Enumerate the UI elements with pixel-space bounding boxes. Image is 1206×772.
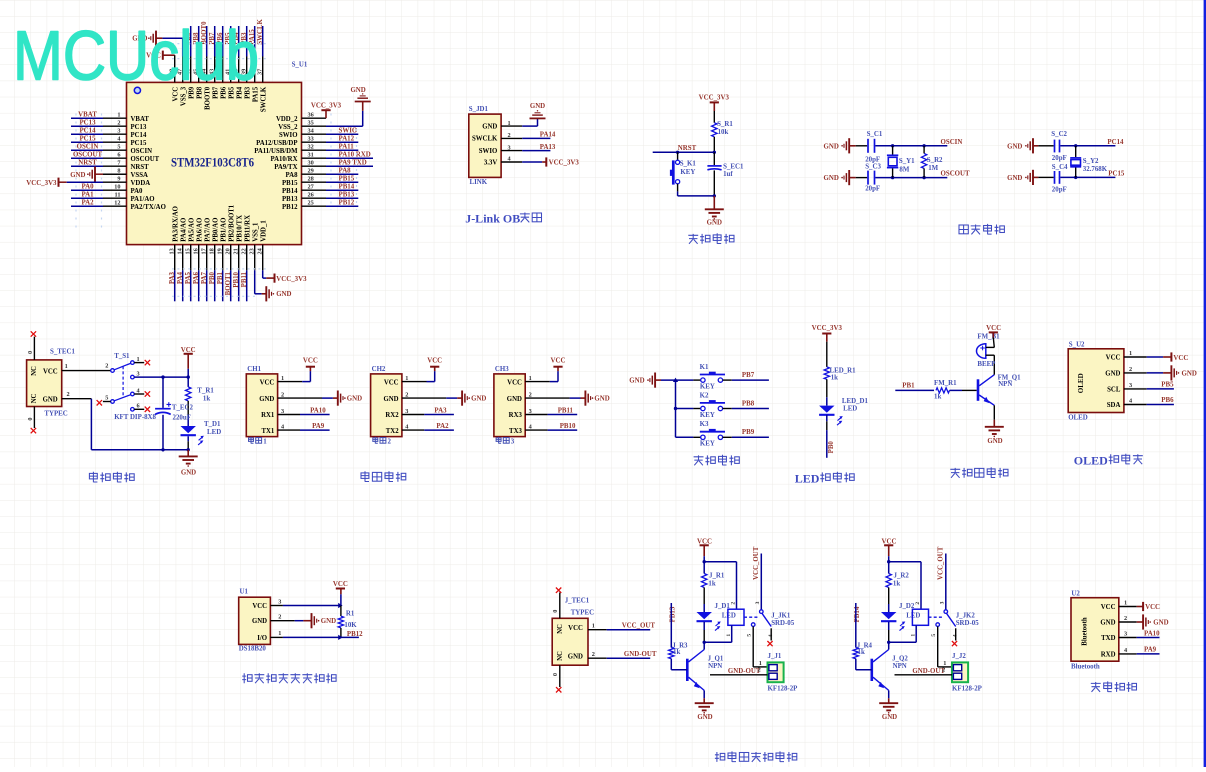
svg-text:NRST: NRST <box>78 160 97 167</box>
wire MCU right pin 26 <box>302 197 327 199</box>
wire MCU top pin 41 <box>230 57 232 83</box>
svg-text:PB10: PB10 <box>560 423 576 430</box>
wire net PB13 <box>326 197 358 199</box>
svg-text:OSCOUT: OSCOUT <box>73 152 103 159</box>
svg-text:VDD_2: VDD_2 <box>276 116 298 123</box>
svg-text:K2: K2 <box>700 392 709 399</box>
svg-text:S_JD1: S_JD1 <box>469 106 489 113</box>
wire snap marks left <box>75 114 77 233</box>
svg-text:MCUclub: MCUclub <box>13 17 259 95</box>
svg-text:1k: 1k <box>673 649 680 656</box>
wire net PA3 <box>174 270 176 301</box>
wire net OSCIN <box>71 149 103 151</box>
svg-text:3: 3 <box>405 408 408 415</box>
resistor S_R1 10k <box>712 123 717 137</box>
svg-text:GND: GND <box>987 438 1002 445</box>
wire emitter to gnd <box>888 690 890 698</box>
svg-text:KEY: KEY <box>700 412 715 419</box>
resistor J_R4 1k <box>853 648 858 659</box>
svg-text:J_J1: J_J1 <box>768 653 782 660</box>
wire CH2 pin3 net PA3 <box>402 414 424 416</box>
svg-text:VCC: VCC <box>333 581 348 588</box>
wire net PB3 <box>246 26 248 57</box>
svg-text:PB13: PB13 <box>282 196 298 203</box>
svg-text:BEEP: BEEP <box>977 361 996 368</box>
LED T_D1 <box>181 426 196 433</box>
svg-text:2: 2 <box>508 132 511 139</box>
svg-text:20pF: 20pF <box>865 156 880 163</box>
power VCC CH2 <box>430 366 439 368</box>
capacitor S_C2 20pF <box>1055 140 1060 153</box>
svg-text:0: 0 <box>27 351 34 354</box>
svg-text:KEY: KEY <box>700 383 715 390</box>
svg-text:T_S1: T_S1 <box>114 353 130 360</box>
wire net PA13 <box>522 150 550 152</box>
svg-text:6: 6 <box>137 403 140 410</box>
svg-text:PC14: PC14 <box>79 128 96 135</box>
junction coil bottom <box>703 641 706 644</box>
ground at MCU pin23 VSS_1 <box>254 270 256 294</box>
svg-text:VCC: VCC <box>551 357 566 364</box>
svg-text:PB7: PB7 <box>742 372 755 379</box>
svg-text:PB13: PB13 <box>339 191 355 198</box>
svg-text:19: 19 <box>217 248 224 254</box>
svg-text:NPN: NPN <box>998 381 1012 388</box>
svg-text:VCC_3V3: VCC_3V3 <box>812 325 843 332</box>
svg-text:22: 22 <box>241 248 248 254</box>
transistor J_Q1 NPN <box>687 650 704 691</box>
svg-text:17: 17 <box>201 248 208 254</box>
wire net PB0 <box>214 270 216 301</box>
wire net PA4 <box>182 270 184 301</box>
svg-text:PB10: PB10 <box>233 271 240 287</box>
wire EC1 top <box>713 152 715 165</box>
svg-text:J_J2: J_J2 <box>952 653 966 660</box>
junction gnd rail <box>713 194 716 197</box>
wire MCU left pin 7 <box>103 165 127 167</box>
svg-text:Bluetooth: Bluetooth <box>1082 617 1089 646</box>
svg-text:1: 1 <box>726 634 732 637</box>
wire T_S1 pin6 stub <box>134 408 144 410</box>
svg-text:GND: GND <box>1153 620 1168 627</box>
svg-text:PB15: PB15 <box>339 175 355 182</box>
resistor S_R2 1M <box>921 146 926 178</box>
connector CH2 serial <box>371 374 402 437</box>
wire MCU left pin 8 <box>103 173 127 175</box>
svg-text:1k: 1k <box>203 396 210 403</box>
svg-text:16: 16 <box>193 248 200 254</box>
wire net PB15 <box>326 181 358 183</box>
svg-text:2: 2 <box>1124 615 1127 622</box>
svg-text:2: 2 <box>592 651 595 658</box>
svg-text:28: 28 <box>308 176 314 183</box>
wire MCU left pin 3 <box>103 133 127 135</box>
wire J_TEC1 pin2 GND-OUT <box>588 657 607 659</box>
svg-text:PA3: PA3 <box>169 271 176 284</box>
svg-text:2: 2 <box>117 120 120 127</box>
wire CH3 pin3 net PB11 <box>525 414 547 416</box>
wire CH3 pin1 VCC <box>525 381 550 383</box>
svg-text:PA6/AO: PA6/AO <box>196 218 203 242</box>
wire MCU bottom pin 16 <box>198 245 200 271</box>
wire MCU right pin 32 <box>302 149 327 151</box>
ground at S_C1 <box>848 138 850 153</box>
wire net BOOT0 <box>206 26 208 57</box>
power VCC OLED pin1 <box>1124 356 1147 358</box>
wire T_S1 pin5 stub <box>103 401 111 403</box>
wire MCU right pin 31 <box>302 157 327 159</box>
svg-text:PB12: PB12 <box>347 631 363 638</box>
wire net PC13 <box>71 125 103 127</box>
svg-text:KF128-2P: KF128-2P <box>768 685 799 692</box>
svg-text:13: 13 <box>169 248 176 254</box>
svg-text:CH2: CH2 <box>372 366 386 373</box>
junction Y1 top <box>891 144 894 147</box>
svg-text:PA8: PA8 <box>339 167 352 174</box>
wire relay pin4 stub <box>955 628 957 640</box>
svg-text:J_Q1: J_Q1 <box>708 656 724 663</box>
svg-text:PB14: PB14 <box>339 183 355 190</box>
svg-text:OLED: OLED <box>1068 414 1088 421</box>
wire net NRST <box>71 165 103 167</box>
svg-text:PC14: PC14 <box>1107 139 1124 146</box>
connector J_J1 KF128-2P <box>768 662 784 682</box>
wire CH2 pin4 net PA2 <box>402 429 424 431</box>
wire S_TEC1 top pin 0 <box>33 337 35 360</box>
svg-text:TX2: TX2 <box>386 428 399 435</box>
wire MCU bottom pin 13 <box>174 245 176 271</box>
svg-text:11: 11 <box>115 192 121 199</box>
svg-text:0: 0 <box>552 610 559 613</box>
wire collector <box>888 642 890 649</box>
svg-text:PA12: PA12 <box>339 135 355 142</box>
svg-text:PA2/TX/AO: PA2/TX/AO <box>131 204 166 211</box>
LED J_D1 <box>697 612 712 619</box>
wire snap marks right <box>330 114 332 211</box>
svg-text:GND: GND <box>882 714 897 721</box>
wire LED_R1 to LED_D1 <box>826 379 828 397</box>
sheet border right <box>1204 0 1206 767</box>
svg-text:FM_B1: FM_B1 <box>977 333 1000 340</box>
connector S_TEC1 TYPEC <box>27 360 62 407</box>
capacitor S_C4 20pF <box>1055 171 1060 184</box>
svg-text:PB10/TX: PB10/TX <box>236 215 243 242</box>
svg-text:OSCOUT: OSCOUT <box>941 171 971 178</box>
svg-text:3.3V: 3.3V <box>484 159 497 166</box>
svg-text:10K: 10K <box>344 622 357 629</box>
wire net OSCOUT <box>71 157 103 159</box>
ground ds18b20 <box>311 613 313 628</box>
svg-text:25: 25 <box>308 200 314 207</box>
relay coil J_JK1 SRD-05 <box>704 609 744 642</box>
svg-text:1k: 1k <box>893 581 900 588</box>
svg-text:VCC_3V3: VCC_3V3 <box>311 103 342 110</box>
svg-text:VBAT: VBAT <box>78 112 97 119</box>
wire MCU top pin 47 <box>182 57 184 83</box>
junction R2 top <box>922 144 925 147</box>
wire net PA0 <box>71 189 103 191</box>
svg-text:S_U2: S_U2 <box>1069 341 1085 348</box>
svg-text:J_R1: J_R1 <box>709 573 725 580</box>
svg-text:5: 5 <box>747 634 753 637</box>
svg-text:PB0: PB0 <box>828 441 835 454</box>
svg-text:0: 0 <box>552 673 559 676</box>
svg-text:VCC_OUT: VCC_OUT <box>937 546 944 580</box>
wire MCU right pin 27 <box>302 189 327 191</box>
wire S_C2 to PC14 <box>1060 145 1115 147</box>
ground key circuit <box>654 373 656 388</box>
svg-text:3: 3 <box>508 144 511 151</box>
svg-text:32: 32 <box>308 144 314 151</box>
svg-text:PA6: PA6 <box>193 271 200 284</box>
resistor FM_R1 1k <box>936 388 950 393</box>
wire net PA1 <box>71 197 103 199</box>
wire MCU bottom pin 24 <box>262 245 264 271</box>
wire net VBAT <box>71 117 103 119</box>
svg-text:SWIO: SWIO <box>479 148 498 155</box>
svg-text:OSCIN: OSCIN <box>77 144 99 151</box>
svg-text:NPN: NPN <box>893 663 907 670</box>
wire net PB14 <box>326 189 358 191</box>
wire U1 pin3 to VCC <box>270 605 283 607</box>
svg-text:PA2: PA2 <box>81 200 94 207</box>
svg-text:3: 3 <box>278 598 281 605</box>
wire MCU right pin 29 <box>302 173 327 175</box>
svg-text:CH1: CH1 <box>247 366 261 373</box>
wire net PB11 <box>246 270 248 301</box>
svg-text:RX1: RX1 <box>261 412 275 419</box>
wire CH2 pin2 GND <box>402 397 446 399</box>
svg-text:PA10: PA10 <box>1144 631 1160 638</box>
wire CH1 pin1 VCC <box>278 381 303 383</box>
title relay control circuit <box>715 752 719 762</box>
capacitor S_EC1 1uf <box>707 166 721 170</box>
connector J_J2 KF128-2P <box>952 662 968 682</box>
svg-text:1: 1 <box>910 634 916 637</box>
junction bottom cap <box>161 448 164 451</box>
svg-text:PA4: PA4 <box>177 271 184 284</box>
wire U1 pin1 net PB12 <box>270 636 283 638</box>
wire MCU bottom pin 20 <box>230 245 232 271</box>
svg-text:GND: GND <box>43 397 58 404</box>
svg-text:LED: LED <box>906 613 920 620</box>
power VCC bluetooth pin1 <box>1119 606 1137 608</box>
svg-text:1: 1 <box>65 363 68 370</box>
svg-text:RXD: RXD <box>1101 652 1116 659</box>
svg-text:2: 2 <box>105 363 108 370</box>
svg-text:PA1: PA1 <box>81 192 94 199</box>
svg-text:KEY: KEY <box>680 169 695 176</box>
connector U1 DS18B20 <box>239 597 271 644</box>
svg-text:1: 1 <box>281 375 284 382</box>
relay switch J_JK2 <box>929 610 956 627</box>
svg-text:VCC: VCC <box>568 625 583 632</box>
wire NRST <box>653 151 715 153</box>
svg-text:PC13: PC13 <box>79 120 96 127</box>
svg-text:5: 5 <box>931 634 937 637</box>
svg-text:1k: 1k <box>708 581 715 588</box>
wire FM_R1 to base <box>950 389 963 391</box>
wire T_S1 pin3 to VCC node <box>134 376 188 378</box>
svg-text:26: 26 <box>308 192 314 199</box>
svg-text:PA5: PA5 <box>185 271 192 284</box>
connector U2 Bluetooth <box>1071 598 1119 662</box>
svg-text:9: 9 <box>117 176 120 183</box>
title crystal circuit <box>959 225 968 234</box>
wire MCU left pin 9 <box>103 181 127 183</box>
wire S_TEC1 pin1 to T_S1 <box>62 370 111 372</box>
svg-text:CH3: CH3 <box>495 366 509 373</box>
svg-text:U1: U1 <box>240 589 249 596</box>
svg-text:27: 27 <box>308 184 314 191</box>
wire CH3 pin2 GND <box>525 397 569 399</box>
svg-text:21: 21 <box>233 248 240 254</box>
junction R1 top arrow <box>338 603 342 608</box>
svg-text:DS18B20: DS18B20 <box>239 646 267 653</box>
svg-text:GND: GND <box>471 396 486 403</box>
svg-text:BOOT1: BOOT1 <box>225 271 232 295</box>
svg-text:PB5: PB5 <box>1161 382 1174 389</box>
wire MCU left pin 2 <box>103 125 127 127</box>
svg-text:LED: LED <box>795 471 820 485</box>
svg-text:K1: K1 <box>700 364 709 371</box>
wire MCU bottom pin 21 <box>238 245 240 271</box>
svg-text:GND: GND <box>507 396 522 403</box>
svg-text:PA0: PA0 <box>131 188 144 195</box>
wire gnd bottom rail <box>91 449 188 451</box>
svg-text:2: 2 <box>278 614 281 621</box>
svg-text:NC: NC <box>557 624 564 634</box>
wire T_S1 pin4 stub <box>134 393 144 395</box>
svg-text:PA12/USB/DP: PA12/USB/DP <box>256 140 297 147</box>
wire CH2 pin1 VCC <box>402 381 427 383</box>
svg-text:GND: GND <box>530 103 545 110</box>
wire emitter to ground <box>993 405 995 420</box>
svg-text:GND: GND <box>321 618 336 625</box>
svg-text:PA13: PA13 <box>540 144 556 151</box>
svg-text:3: 3 <box>1124 631 1127 638</box>
svg-text:VCC_3V3: VCC_3V3 <box>26 180 57 187</box>
svg-text:T_D1: T_D1 <box>204 421 221 428</box>
svg-text:OSCIN: OSCIN <box>941 139 963 146</box>
wire to LED_R1 <box>826 342 828 367</box>
wire bus to K2 <box>676 408 694 410</box>
relay switch J_JK1 <box>744 610 771 627</box>
wire MCU top pin 38 <box>254 57 256 83</box>
svg-text:PB1: PB1 <box>217 271 224 284</box>
wire K3 to net PB9 <box>723 436 732 438</box>
svg-text:S_R1: S_R1 <box>717 121 733 128</box>
ground at MCU pin8 VSSA <box>95 173 103 175</box>
svg-text:220uF: 220uF <box>173 415 191 422</box>
svg-text:2: 2 <box>1129 366 1132 373</box>
junction key bus mid <box>674 407 677 410</box>
wire VCC_OUT down <box>945 554 947 610</box>
wire net PB10 <box>238 270 240 301</box>
wire S_TEC1 pin2 GND out <box>62 398 92 400</box>
switch S_K1 KEY <box>670 160 680 184</box>
svg-text:PB14: PB14 <box>854 606 861 622</box>
svg-text:VCC: VCC <box>986 325 1001 332</box>
svg-text:PB8: PB8 <box>742 400 755 407</box>
svg-text:S_R2: S_R2 <box>927 157 943 164</box>
svg-text:TYPEC: TYPEC <box>44 410 67 417</box>
svg-text:0: 0 <box>27 418 34 421</box>
svg-text:30: 30 <box>308 160 314 167</box>
svg-text:GND-OUT: GND-OUT <box>912 668 945 675</box>
svg-text:31: 31 <box>308 152 314 159</box>
svg-text:NC: NC <box>557 651 564 661</box>
wire net PA5 <box>190 270 192 301</box>
svg-text:J_R2: J_R2 <box>894 573 910 580</box>
svg-text:VCC: VCC <box>260 379 275 386</box>
wire MCU top pin 46 <box>190 57 192 83</box>
junction VCC node <box>187 375 190 378</box>
svg-text:T_EC2: T_EC2 <box>172 405 194 412</box>
svg-text:PB11: PB11 <box>558 408 574 415</box>
svg-text:PA3/RX/AO: PA3/RX/AO <box>172 206 179 242</box>
svg-text:PB14: PB14 <box>282 188 298 195</box>
svg-text:1k: 1k <box>934 394 941 401</box>
svg-text:PB0/AO: PB0/AO <box>212 218 219 242</box>
svg-text:NC: NC <box>31 393 38 403</box>
wire MCU top pin 45 <box>198 57 200 83</box>
svg-text:PA7: PA7 <box>201 271 208 284</box>
wire T_D1 to gnd <box>187 436 189 441</box>
svg-text:PC15: PC15 <box>131 140 147 147</box>
svg-text:I/O: I/O <box>257 635 267 642</box>
svg-text:VSS_2: VSS_2 <box>278 124 298 131</box>
wire MCU left pin 12 <box>103 205 127 207</box>
value serial1 <box>249 438 254 442</box>
svg-text:LED: LED <box>722 613 736 620</box>
wire MCU top pin 42 <box>222 57 224 83</box>
wire PB1 to FM_R1 <box>895 389 934 391</box>
svg-text:SDA: SDA <box>1107 402 1121 409</box>
crystal S_Y2 32.768K <box>1070 146 1081 178</box>
wire S_JD1 pin 2 <box>501 137 522 139</box>
junction vcc node <box>703 560 706 563</box>
svg-text:PC15: PC15 <box>1108 171 1125 178</box>
svg-text:2: 2 <box>281 391 284 398</box>
wire net PA15 <box>254 26 256 57</box>
svg-text:GND-OUT: GND-OUT <box>728 668 761 675</box>
svg-text:5: 5 <box>117 144 120 151</box>
svg-text:J_JK2: J_JK2 <box>956 613 976 620</box>
wire S_TEC1 bottom pin 0 <box>33 407 35 429</box>
wire net PA9 bt <box>1119 653 1137 655</box>
svg-text:24: 24 <box>257 247 264 254</box>
junction key branch <box>676 151 679 154</box>
svg-text:GND: GND <box>1007 175 1022 182</box>
resistor T_R1 1k <box>186 387 191 401</box>
wire CH1 pin3 net PA10 <box>278 414 300 416</box>
ground CH3 <box>584 391 586 406</box>
svg-text:S_C4: S_C4 <box>1052 164 1068 171</box>
svg-text:GND: GND <box>594 396 609 403</box>
wire MCU bottom pin 17 <box>206 245 208 271</box>
svg-text:LED_D1: LED_D1 <box>842 398 869 405</box>
wire branch to coil <box>704 561 736 563</box>
svg-text:VCC: VCC <box>1145 604 1160 611</box>
wire MCU right pin 35 <box>302 125 327 127</box>
ground at S_C4 <box>1032 170 1034 185</box>
svg-text:PB11/RX: PB11/RX <box>244 215 251 242</box>
svg-text:PB12: PB12 <box>339 199 355 206</box>
svg-text:SWCLK: SWCLK <box>260 86 267 112</box>
wire MCU top pin 40 <box>238 57 240 83</box>
svg-text:GND: GND <box>259 396 274 403</box>
